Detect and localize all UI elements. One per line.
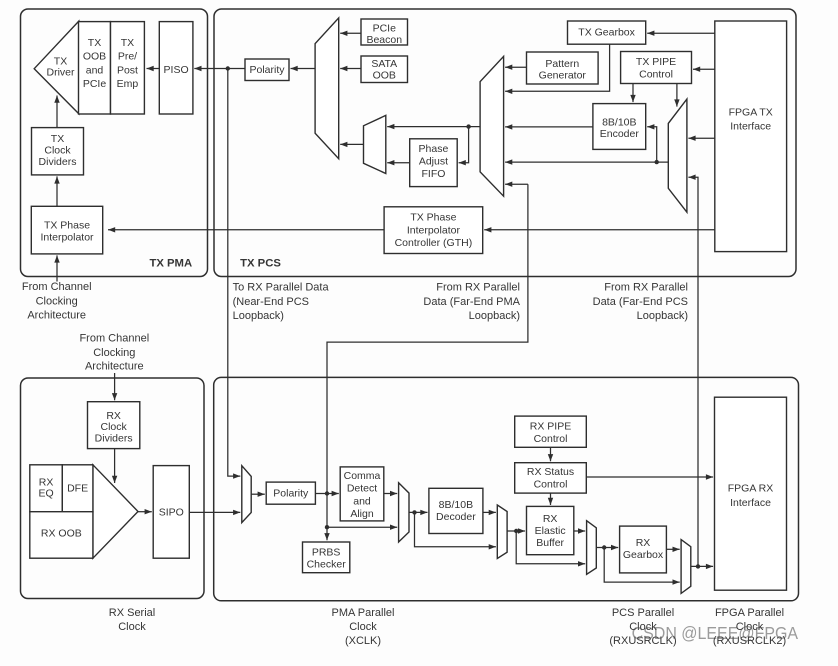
svg-text:Architecture: Architecture	[27, 309, 86, 321]
svg-text:To RX Parallel Data: To RX Parallel Data	[233, 282, 330, 294]
svg-text:Pre/: Pre/	[118, 51, 137, 63]
svg-text:RX: RX	[636, 537, 651, 549]
svg-text:RX Status: RX Status	[527, 466, 574, 478]
svg-text:Polarity: Polarity	[273, 488, 309, 500]
svg-text:CSDN @LEEE@FPGA: CSDN @LEEE@FPGA	[632, 623, 799, 643]
svg-text:TX Phase: TX Phase	[410, 212, 456, 224]
svg-text:Beacon: Beacon	[366, 34, 402, 46]
svg-text:8B/10B: 8B/10B	[602, 116, 636, 128]
svg-text:Clock: Clock	[101, 421, 128, 433]
svg-text:TX Gearbox: TX Gearbox	[578, 27, 635, 39]
svg-text:Adjust: Adjust	[419, 155, 448, 167]
svg-text:OOB: OOB	[83, 51, 106, 63]
svg-text:PRBS: PRBS	[312, 546, 341, 558]
svg-text:PMA Parallel: PMA Parallel	[332, 607, 395, 619]
svg-text:(Near-End PCS: (Near-End PCS	[233, 296, 309, 308]
svg-text:Gearbox: Gearbox	[623, 549, 664, 561]
svg-text:TX Phase: TX Phase	[44, 219, 90, 231]
svg-text:Controller (GTH): Controller (GTH)	[395, 237, 473, 249]
svg-text:Loopback): Loopback)	[637, 310, 688, 322]
svg-text:and: and	[353, 495, 371, 507]
svg-text:Elastic: Elastic	[535, 525, 566, 537]
svg-text:TX: TX	[51, 133, 64, 145]
svg-text:Architecture: Architecture	[85, 361, 144, 373]
svg-text:PCIe: PCIe	[83, 78, 107, 90]
svg-text:Loopback): Loopback)	[469, 310, 520, 322]
svg-text:PCS Parallel: PCS Parallel	[612, 607, 674, 619]
svg-text:TX PCS: TX PCS	[240, 257, 281, 269]
svg-text:Polarity: Polarity	[249, 64, 285, 76]
svg-text:Interface: Interface	[730, 121, 771, 133]
svg-text:FPGA RX: FPGA RX	[728, 483, 774, 495]
svg-text:From Channel: From Channel	[79, 333, 149, 345]
svg-text:Detect: Detect	[347, 483, 377, 495]
svg-text:Interpolator: Interpolator	[407, 224, 461, 236]
svg-text:Clock: Clock	[349, 621, 377, 633]
svg-text:Align: Align	[350, 508, 374, 520]
svg-text:Checker: Checker	[307, 558, 347, 570]
svg-text:TX PMA: TX PMA	[149, 257, 192, 269]
svg-text:Interface: Interface	[730, 497, 771, 509]
svg-text:RX Serial: RX Serial	[109, 607, 155, 619]
svg-text:Clocking: Clocking	[93, 347, 135, 359]
svg-text:SATA: SATA	[371, 58, 397, 70]
svg-text:Data (Far-End PCS: Data (Far-End PCS	[593, 296, 688, 308]
svg-text:EQ: EQ	[38, 488, 53, 500]
svg-text:RX: RX	[543, 513, 558, 525]
svg-text:TX PIPE: TX PIPE	[636, 56, 676, 68]
svg-text:8B/10B: 8B/10B	[439, 499, 473, 511]
svg-text:Clock: Clock	[44, 145, 71, 157]
svg-text:Control: Control	[639, 69, 673, 81]
svg-text:Data (Far-End PMA: Data (Far-End PMA	[423, 296, 520, 308]
svg-text:and: and	[86, 64, 104, 76]
svg-text:TX: TX	[121, 37, 134, 49]
svg-text:Generator: Generator	[539, 69, 587, 81]
svg-text:Control: Control	[534, 433, 568, 445]
svg-text:RX: RX	[106, 410, 121, 422]
svg-text:Dividers: Dividers	[95, 433, 133, 445]
svg-text:RX PIPE: RX PIPE	[530, 420, 571, 432]
svg-text:Clock: Clock	[118, 621, 146, 633]
svg-text:Pattern: Pattern	[545, 58, 579, 70]
svg-text:SIPO: SIPO	[159, 506, 184, 518]
svg-text:Interpolator: Interpolator	[40, 231, 94, 243]
svg-text:Comma: Comma	[344, 470, 381, 482]
svg-text:FIFO: FIFO	[421, 168, 445, 180]
svg-text:Phase: Phase	[419, 143, 449, 155]
svg-text:Clocking: Clocking	[36, 295, 78, 307]
svg-text:FPGA Parallel: FPGA Parallel	[715, 607, 784, 619]
svg-text:Decoder: Decoder	[436, 511, 476, 523]
svg-text:RX OOB: RX OOB	[41, 528, 82, 540]
svg-text:Buffer: Buffer	[536, 537, 564, 549]
svg-text:From RX Parallel: From RX Parallel	[436, 282, 520, 294]
svg-text:OOB: OOB	[373, 69, 396, 81]
svg-text:PCIe: PCIe	[373, 22, 397, 34]
svg-text:Encoder: Encoder	[600, 128, 640, 140]
svg-text:From RX Parallel: From RX Parallel	[604, 282, 688, 294]
svg-text:DFE: DFE	[67, 482, 88, 494]
svg-text:From Channel: From Channel	[22, 281, 92, 293]
svg-text:PISO: PISO	[164, 64, 189, 76]
svg-text:Dividers: Dividers	[39, 156, 77, 168]
svg-text:Emp: Emp	[117, 78, 139, 90]
svg-text:Control: Control	[534, 479, 568, 491]
svg-text:(XCLK): (XCLK)	[345, 635, 381, 647]
svg-text:Loopback): Loopback)	[233, 310, 284, 322]
svg-text:Post: Post	[117, 64, 138, 76]
svg-text:FPGA TX: FPGA TX	[729, 107, 773, 119]
svg-text:TX: TX	[88, 37, 101, 49]
svg-text:Driver: Driver	[47, 67, 76, 79]
